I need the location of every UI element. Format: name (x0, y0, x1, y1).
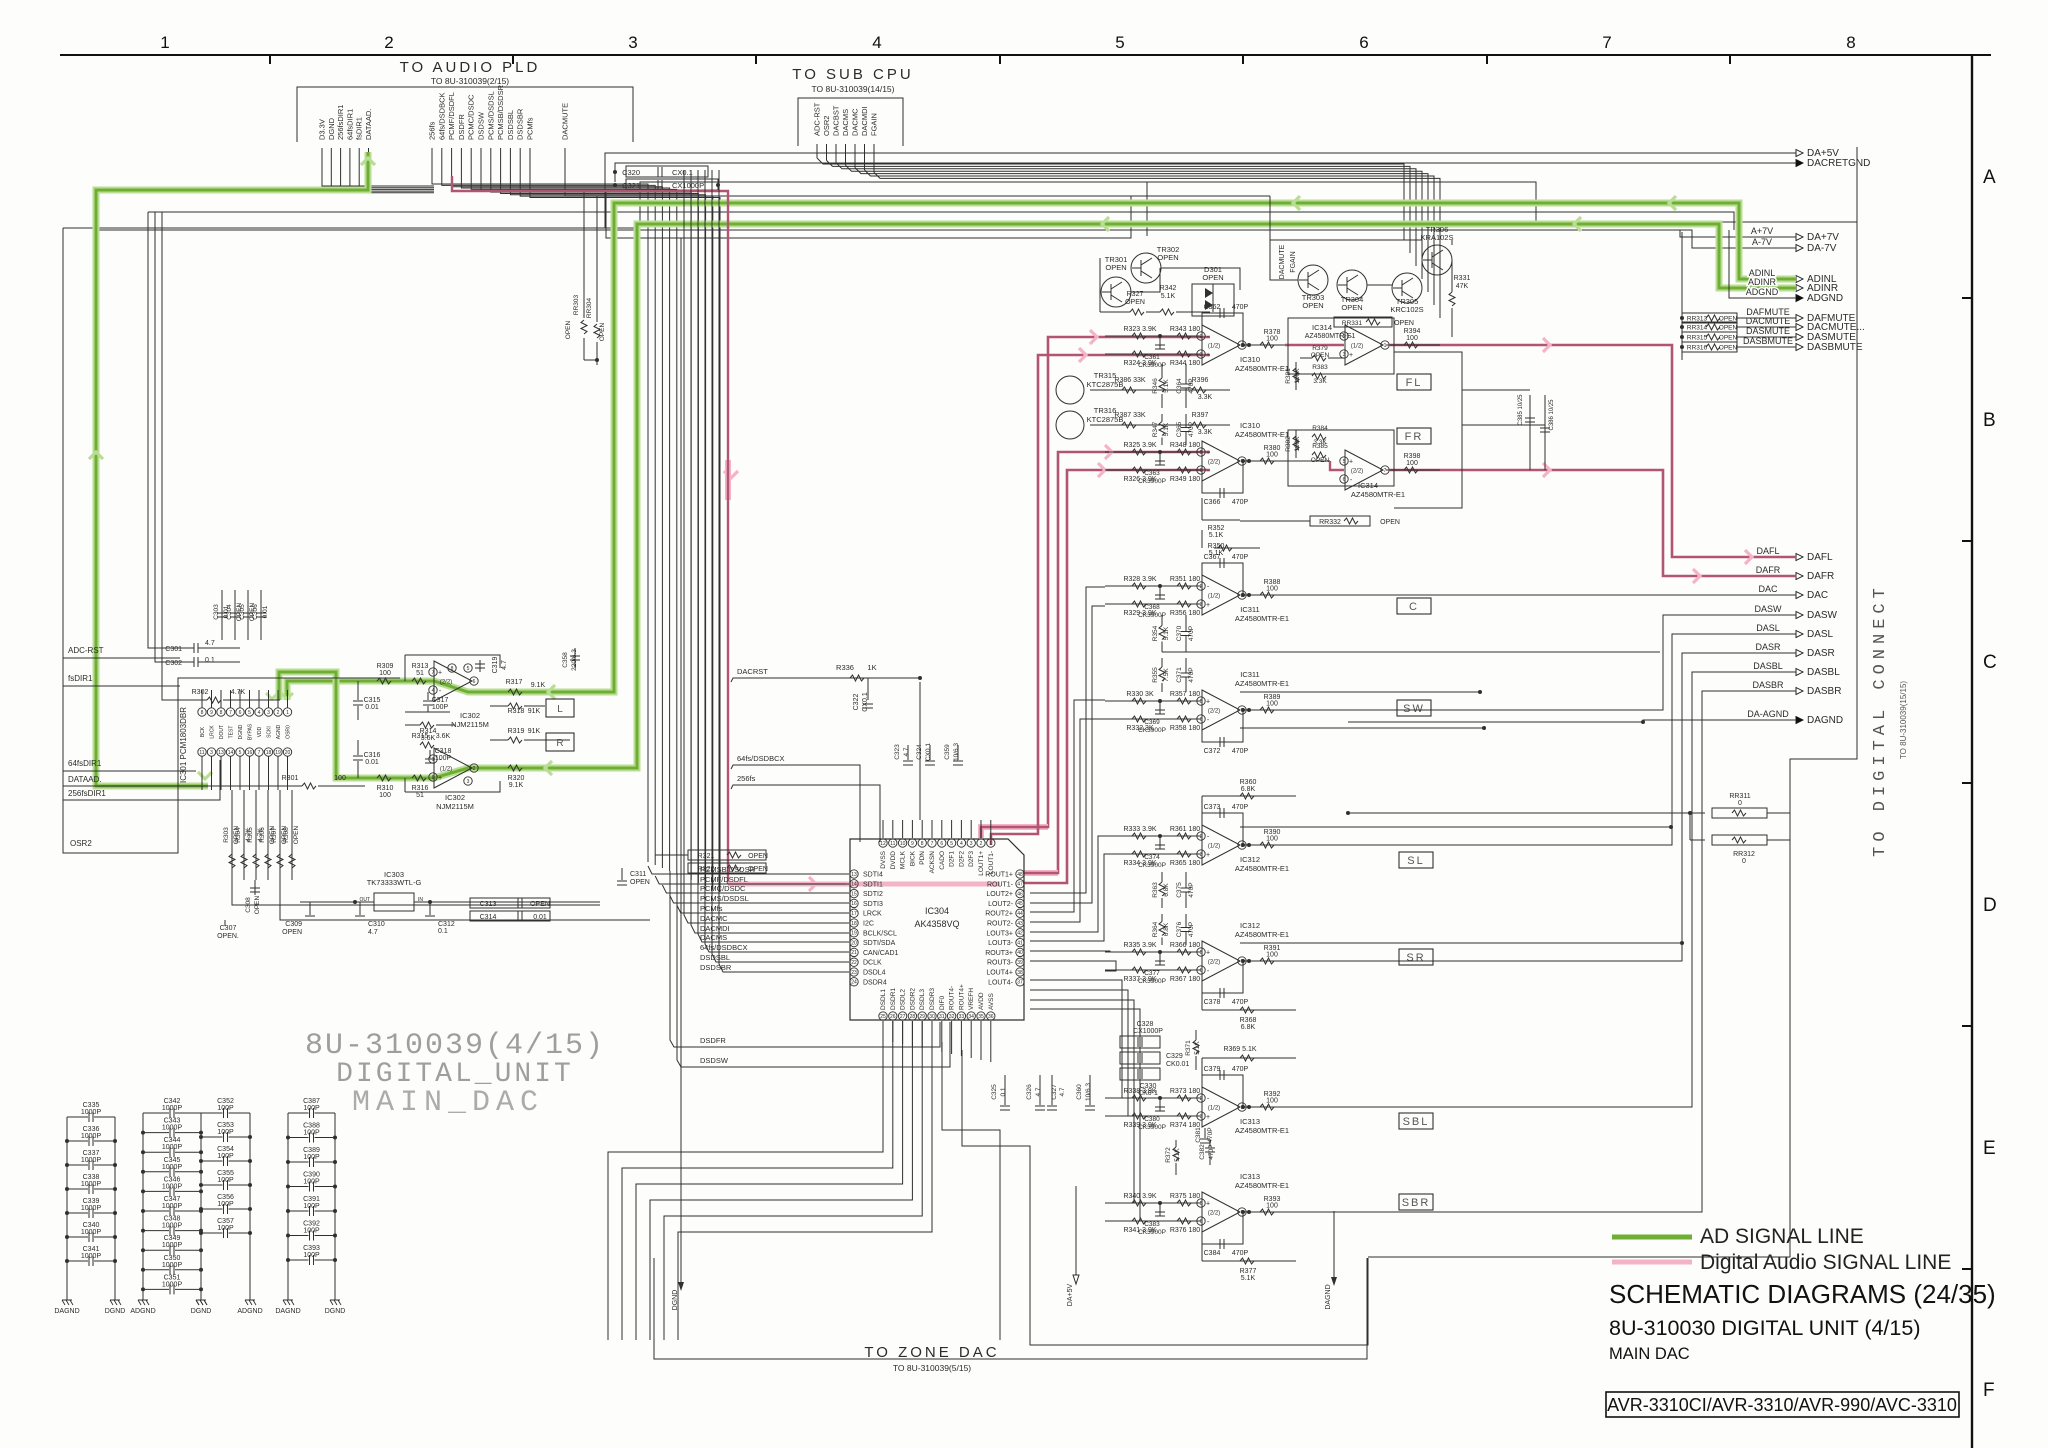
svg-text:OPEN: OPEN (282, 929, 302, 936)
svg-text:R369 5.1K: R369 5.1K (1223, 1046, 1256, 1053)
svg-text:R354: R354 (1152, 625, 1159, 641)
svg-text:R316: R316 (412, 785, 429, 792)
svg-text:FGAIN: FGAIN (870, 113, 879, 136)
svg-text:R386 33K: R386 33K (1114, 377, 1145, 384)
wire FL aux right (1394, 352, 1462, 508)
wire DACRST (731, 678, 920, 682)
op-amp IC310 FR (1105, 451, 1201, 453)
wire right box2 (1147, 182, 1857, 222)
svg-text:100: 100 (1266, 1203, 1278, 1210)
wire out bundle SBL+ (1030, 980, 1122, 1098)
left lower wires (232, 880, 600, 905)
svg-text:6.8K: 6.8K (1241, 786, 1256, 793)
svg-text:13: 13 (218, 750, 224, 756)
svg-text:DACMC: DACMC (851, 108, 860, 136)
exit arrow DACMUTE... (1796, 324, 1803, 331)
svg-text:KRA102S: KRA102S (1421, 233, 1454, 242)
svg-text:IC302: IC302 (460, 711, 480, 720)
svg-text:C327: C327 (1051, 1084, 1058, 1100)
svg-text:470P: 470P (1232, 1066, 1249, 1073)
svg-text:C385 10/25: C385 10/25 (1518, 394, 1524, 426)
svg-text:470P: 470P (1188, 667, 1195, 682)
svg-text:47: 47 (1017, 882, 1023, 888)
svg-text:100P: 100P (303, 1228, 320, 1235)
svg-text:42: 42 (1017, 931, 1023, 937)
svg-text:RR311: RR311 (1729, 793, 1750, 800)
wire box top A (63, 182, 1147, 236)
svg-text:44: 44 (1017, 911, 1023, 917)
svg-text:R320: R320 (508, 775, 525, 782)
svg-text:1000P: 1000P (81, 1253, 102, 1260)
svg-text:RR315: RR315 (1687, 335, 1708, 342)
pin PCMfs (0, 0, 1, 1)
IC302 fb box2 (405, 781, 500, 792)
svg-text:SL: SL (1407, 855, 1424, 867)
svg-text:C389: C389 (303, 1147, 320, 1154)
svg-text:DAGND: DAGND (54, 1308, 79, 1315)
DA arrow FL in1 (1090, 330, 1097, 344)
svg-text:1000P: 1000P (81, 1229, 102, 1236)
svg-text:SW: SW (1403, 703, 1425, 715)
svg-text:5.1K: 5.1K (1161, 293, 1176, 300)
exit arrow DA+7V (1796, 234, 1803, 241)
svg-text:9: 9 (911, 841, 914, 847)
wire 64fs/DSDBCX (731, 765, 860, 842)
svg-text:C308: C308 (245, 897, 252, 913)
wire DA+7V link (1680, 230, 1796, 237)
svg-text:C358: C358 (562, 652, 569, 668)
cap C325 (1004, 1075, 1006, 1105)
wire left col C301 feed (148, 212, 160, 648)
svg-text:DASR: DASR (1807, 648, 1835, 659)
pin fsDIR1 (0, 0, 1, 1)
svg-text:18: 18 (266, 750, 272, 756)
resistor R313 (412, 678, 426, 684)
exit arrow DAFL (1796, 554, 1803, 561)
svg-text:C359: C359 (944, 744, 951, 760)
svg-text:(2/2): (2/2) (1208, 709, 1220, 715)
svg-text:C328: C328 (1137, 1021, 1154, 1028)
svg-text:PCMC/DSDC: PCMC/DSDC (467, 94, 476, 140)
svg-text:R374 180: R374 180 (1170, 1122, 1200, 1129)
svg-text:R330 3K: R330 3K (1126, 691, 1154, 698)
svg-text:R304: R304 (235, 827, 242, 843)
svg-text:9.1K: 9.1K (531, 682, 546, 689)
wire DASL out (1285, 634, 1796, 845)
left signal fsDIR1 (63, 685, 180, 687)
svg-text:OPEN: OPEN (1125, 299, 1145, 306)
wire bundle audio pld B to DAC (432, 176, 648, 862)
wire 256fs (731, 785, 880, 842)
svg-text:8: 8 (220, 710, 223, 716)
ruler tick (755, 55, 757, 64)
IC304 left pins (850, 870, 858, 878)
svg-text:4: 4 (960, 841, 963, 847)
svg-text:FGAIN: FGAIN (1290, 251, 1297, 272)
svg-text:4: 4 (432, 688, 435, 694)
resistor R317 (508, 689, 522, 695)
exit arrow DACRETGND (1796, 160, 1803, 167)
svg-text:7: 7 (1602, 33, 1611, 52)
svg-text:DSDSBL: DSDSBL (700, 953, 730, 962)
svg-text:5.1K: 5.1K (1163, 626, 1170, 640)
svg-text:C323: C323 (894, 744, 901, 760)
svg-text:VDD: VDD (257, 726, 263, 737)
exit arrow DAFR (1796, 573, 1803, 580)
svg-text:470P: 470P (1232, 804, 1249, 811)
svg-text:PCMfs: PCMfs (526, 117, 535, 140)
svg-text:C369: C369 (1144, 719, 1160, 726)
svg-text:OPEN: OPEN (1719, 345, 1738, 352)
svg-text:DSDFR: DSDFR (457, 114, 466, 140)
svg-text:15: 15 (851, 891, 857, 897)
svg-text:DASL: DASL (1756, 623, 1780, 633)
svg-text:C301: C301 (165, 646, 182, 653)
svg-text:fsDIR1: fsDIR1 (355, 117, 364, 140)
cap C324 (929, 745, 931, 760)
svg-text:PDN: PDN (919, 851, 926, 865)
svg-text:C377: C377 (1144, 970, 1160, 977)
svg-text:0: 0 (1742, 858, 1746, 865)
svg-text:C354: C354 (217, 1146, 234, 1153)
pin DSDFR (0, 0, 1, 1)
cap C327 (1051, 1075, 1053, 1105)
svg-text:3.6K: 3.6K (436, 733, 451, 740)
svg-text:C365: C365 (1176, 421, 1183, 437)
svg-text:MAIN DAC: MAIN DAC (1609, 1345, 1690, 1363)
svg-text:100: 100 (379, 792, 391, 799)
svg-text:OPEN: OPEN (1202, 273, 1223, 282)
AD signal line L channel (287, 203, 1796, 700)
cap C330 (1120, 1068, 1160, 1080)
border tick (1962, 297, 1972, 299)
wire out bundle SW- (1030, 719, 1105, 922)
svg-text:OPEN: OPEN (1719, 335, 1738, 342)
svg-text:FL: FL (1406, 377, 1423, 389)
svg-text:41: 41 (1017, 940, 1023, 946)
svg-text:IC304: IC304 (925, 906, 949, 916)
svg-text:DAFL: DAFL (1756, 546, 1779, 556)
svg-text:45: 45 (1017, 901, 1023, 907)
svg-text:1000P: 1000P (81, 1133, 102, 1140)
svg-text:C315: C315 (364, 697, 381, 704)
left signal DATAAD (63, 785, 208, 787)
wire out bundle SR+ (1030, 951, 1110, 952)
top ruler line (60, 54, 1991, 56)
svg-text:AZ4580MTR-E1: AZ4580MTR-E1 (1235, 930, 1289, 939)
resistor R382 (1295, 430, 1297, 458)
svg-text:R331: R331 (1454, 275, 1471, 282)
pin 64fsDIR1 (0, 0, 1, 1)
svg-text:23: 23 (851, 970, 857, 976)
DA arrow DAFL exit (1745, 550, 1752, 564)
svg-text:0.01: 0.01 (533, 914, 547, 921)
svg-text:1000P: 1000P (81, 1109, 102, 1116)
svg-text:C349: C349 (164, 1235, 181, 1242)
pin D3.3V (0, 0, 1, 1)
op-amp IC302 R (434, 748, 472, 788)
exit arrow DAFMUTE (1796, 315, 1803, 322)
wire OSR2 box (63, 228, 178, 853)
resistor R320 (508, 765, 522, 771)
svg-text:DSDFR: DSDFR (700, 1036, 726, 1045)
ruler tick (1242, 55, 1244, 64)
svg-text:DSDSBR: DSDSBR (516, 108, 525, 140)
wire rr311 link (1640, 812, 1705, 814)
border tick (1962, 782, 1972, 784)
exit arrow DA+5V (1796, 150, 1803, 157)
svg-text:22: 22 (851, 960, 857, 966)
svg-text:470P: 470P (1232, 1250, 1249, 1257)
svg-text:R335 3.9K: R335 3.9K (1123, 942, 1156, 949)
svg-text:DAFR: DAFR (1756, 565, 1781, 575)
svg-text:29: 29 (919, 1014, 925, 1020)
cap C360 (1089, 1075, 1091, 1105)
svg-text:R352: R352 (1208, 525, 1225, 532)
svg-text:64fs/DSDBCX: 64fs/DSDBCX (700, 943, 748, 952)
svg-text:R323 3.9K: R323 3.9K (1123, 326, 1156, 333)
svg-text:3: 3 (1343, 352, 1346, 358)
svg-text:R357 180: R357 180 (1170, 691, 1200, 698)
transistor TR316 (1056, 411, 1084, 439)
svg-text:DA+7V: DA+7V (1807, 232, 1839, 243)
DA line DAFL (1390, 345, 1796, 557)
svg-text:C351: C351 (164, 1274, 181, 1281)
pin 64fs/DSDBCK (0, 0, 1, 1)
svg-text:AZ4580MTR-E1: AZ4580MTR-E1 (1351, 490, 1405, 499)
svg-text:LRCK: LRCK (210, 725, 216, 739)
svg-text:5.1K: 5.1K (1163, 379, 1170, 393)
IC304 bottom right wires (942, 1042, 1000, 1340)
svg-text:C318: C318 (435, 748, 452, 755)
svg-text:A+7V: A+7V (1751, 226, 1773, 236)
svg-text:CK3900P: CK3900P (1138, 478, 1166, 485)
svg-text:+: + (1206, 352, 1210, 359)
svg-text:4: 4 (258, 710, 261, 716)
svg-text:OPEN: OPEN (1719, 325, 1738, 332)
svg-text:DACMUTE: DACMUTE (561, 103, 570, 140)
AD arrow left y224 a (1102, 217, 1109, 231)
svg-text:12: 12 (880, 841, 886, 847)
AD arrow left y224 b (1574, 217, 1581, 231)
svg-text:R364: R364 (1152, 921, 1159, 937)
svg-text:OPEN: OPEN (1394, 320, 1414, 327)
svg-text:RR316: RR316 (1687, 345, 1708, 352)
resistor R372 (1173, 1147, 1179, 1161)
DA line LOUT1+ to FL (981, 337, 1150, 838)
svg-text:2: 2 (277, 710, 280, 716)
DA line PCMF highlight arrow (724, 471, 738, 478)
svg-text:1000P: 1000P (81, 1157, 102, 1164)
svg-text:DSDR3: DSDR3 (929, 988, 936, 1010)
pin 256fsDIR1 (0, 0, 1, 1)
svg-text:R367 180: R367 180 (1170, 976, 1200, 983)
power arrow DGND (680, 1186, 682, 1282)
svg-text:ROUT3-: ROUT3- (987, 960, 1014, 967)
svg-text:0.01: 0.01 (365, 759, 379, 766)
svg-text:LOUT2-: LOUT2- (988, 901, 1014, 908)
svg-text:C312: C312 (438, 921, 455, 928)
svg-text:ROUT1-: ROUT1- (987, 881, 1014, 888)
wire reg row (300, 901, 374, 903)
svg-text:6: 6 (940, 841, 943, 847)
cap C315 (357, 681, 359, 700)
svg-text:AZ4580MTR-E1: AZ4580MTR-E1 (1305, 333, 1356, 340)
IC304 input rows pcm (648, 866, 849, 874)
svg-text:R344 180: R344 180 (1170, 360, 1200, 367)
svg-text:OPEN: OPEN (599, 322, 606, 341)
svg-text:DSDSBL: DSDSBL (506, 110, 515, 140)
svg-text:PCMSB/DSDSR: PCMSB/DSDSR (496, 84, 505, 140)
resistor RR304 (596, 196, 598, 322)
svg-text:470P: 470P (1232, 499, 1249, 506)
svg-text:28: 28 (910, 1014, 916, 1020)
svg-text:R349 180: R349 180 (1170, 476, 1200, 483)
caps C303-C306 (221, 590, 223, 640)
channel box SBR (1399, 1194, 1433, 1210)
AD arrow left y203 b (1669, 196, 1676, 210)
svg-text:1: 1 (989, 841, 992, 847)
svg-text:220/6.3: 220/6.3 (571, 649, 578, 671)
pin DGND (0, 0, 1, 1)
svg-text:3: 3 (467, 779, 470, 785)
svg-text:35: 35 (978, 1014, 984, 1020)
svg-text:5: 5 (239, 750, 242, 756)
svg-text:SDTI4: SDTI4 (863, 872, 883, 879)
svg-text:100: 100 (379, 670, 391, 677)
resistor RR311 (1712, 808, 1767, 818)
svg-text:38: 38 (1017, 970, 1023, 976)
IC304 bottom pin staircase (608, 1021, 883, 1340)
svg-text:C380: C380 (1144, 1116, 1160, 1123)
exit arrow DASL (1796, 631, 1803, 638)
svg-text:VREFH: VREFH (968, 988, 975, 1010)
svg-text:OPEN: OPEN (1719, 316, 1738, 323)
DA line SDTI1 core (728, 883, 846, 885)
svg-text:R379: R379 (1312, 345, 1328, 352)
exit arrow ADINL (1796, 276, 1803, 283)
svg-text:37: 37 (1017, 980, 1023, 986)
svg-text:51: 51 (416, 670, 424, 677)
svg-text:4.7: 4.7 (1059, 1087, 1066, 1096)
legend AD swatch (1612, 1235, 1692, 1240)
svg-text:9: 9 (210, 710, 213, 716)
svg-text:R336: R336 (836, 663, 854, 672)
interstage C381 (1204, 1128, 1206, 1138)
svg-text:5: 5 (1200, 1201, 1203, 1207)
IC301 outline (63, 700, 178, 853)
svg-text:OPEN: OPEN (1311, 457, 1330, 464)
svg-text:C345: C345 (164, 1157, 181, 1164)
svg-text:91K: 91K (528, 728, 541, 735)
ruler tick (1729, 55, 1731, 64)
svg-text:OPEN: OPEN (630, 879, 650, 886)
op-amp IC313 SBR stage (1105, 1202, 1201, 1204)
resistor R322 (688, 863, 766, 873)
svg-text:DASW: DASW (1755, 604, 1783, 614)
svg-text:Digital Audio SIGNAL LINE: Digital Audio SIGNAL LINE (1700, 1251, 1951, 1274)
IC304 bottom pins (879, 1012, 887, 1020)
svg-text:R342: R342 (1160, 285, 1177, 292)
svg-text:5.1K: 5.1K (1241, 1275, 1256, 1282)
svg-text:ADGND: ADGND (130, 1308, 155, 1315)
svg-text:R309: R309 (377, 663, 394, 670)
svg-text:C305: C305 (239, 604, 246, 620)
svg-text:RR332: RR332 (1319, 519, 1341, 526)
svg-text:C340: C340 (83, 1222, 100, 1229)
svg-text:C375: C375 (1176, 882, 1183, 898)
svg-text:64fs/DSDBCX: 64fs/DSDBCX (737, 754, 785, 763)
svg-text:CX1000P: CX1000P (1133, 1028, 1163, 1035)
svg-text:R387 33K: R387 33K (1114, 412, 1145, 419)
svg-text:R376 180: R376 180 (1170, 1227, 1200, 1234)
svg-text:R346: R346 (1152, 378, 1159, 394)
svg-text:6: 6 (1359, 33, 1368, 52)
svg-text:CK3900P: CK3900P (1138, 362, 1166, 369)
svg-text:SCKI: SCKI (267, 726, 273, 738)
svg-text:DASW: DASW (1807, 610, 1838, 621)
svg-text:DSDR2: DSDR2 (909, 988, 916, 1010)
transistor TR305 (1392, 273, 1422, 303)
svg-text:+: + (1206, 1201, 1210, 1208)
svg-text:256fs: 256fs (428, 121, 437, 140)
svg-text:ADINR: ADINR (1748, 277, 1777, 287)
svg-text:DASBMUTE: DASBMUTE (1807, 342, 1863, 353)
resistor R385 (1312, 452, 1326, 458)
cap C322 (863, 703, 873, 705)
wire mid long 943 (1240, 942, 1682, 944)
svg-text:ROUT4-: ROUT4- (949, 986, 956, 1010)
svg-text:C386 10/25: C386 10/25 (1549, 399, 1555, 431)
svg-text:C379: C379 (1204, 1066, 1221, 1073)
wire vert x681 (680, 238, 682, 1186)
IC304 dsdfr row (670, 871, 940, 1047)
svg-text:5.1K: 5.1K (1163, 422, 1170, 436)
svg-text:R368: R368 (1240, 1017, 1257, 1024)
resistor R350 (1201, 530, 1203, 548)
svg-text:AZ4580MTR-E1: AZ4580MTR-E1 (1235, 679, 1289, 688)
svg-text:DSDR1: DSDR1 (890, 988, 897, 1010)
svg-text:0.01: 0.01 (262, 605, 269, 618)
resistor R394 (1386, 344, 1440, 346)
svg-text:33: 33 (959, 1014, 965, 1020)
svg-text:R397: R397 (1192, 412, 1209, 419)
svg-text:C393: C393 (303, 1245, 320, 1252)
svg-text:LOUT4-: LOUT4- (988, 979, 1014, 986)
svg-text:TO DIGITAL CONNECT: TO DIGITAL CONNECT (1871, 583, 1890, 857)
DA line SDTI1 highlight (728, 882, 1000, 887)
svg-text:R343 180: R343 180 (1170, 326, 1200, 333)
left signal ADC-RST (63, 657, 180, 659)
cap C358 (574, 648, 576, 668)
exit arrow DASMUTE (1796, 334, 1803, 341)
svg-text:R351 180: R351 180 (1170, 576, 1200, 583)
svg-text:AD SIGNAL LINE: AD SIGNAL LINE (1700, 1225, 1864, 1248)
svg-text:100: 100 (1406, 335, 1418, 342)
svg-text:24: 24 (851, 980, 857, 986)
svg-text:C353: C353 (217, 1122, 234, 1129)
transistor TR306 (1422, 245, 1452, 275)
svg-text:100P: 100P (217, 1201, 234, 1208)
svg-text:DACBST: DACBST (832, 105, 841, 136)
svg-text:RR313: RR313 (1687, 316, 1708, 323)
channel box L (546, 699, 574, 717)
svg-text:DA-AGND: DA-AGND (1747, 709, 1789, 719)
wire trans row1 (1099, 258, 1101, 312)
svg-text:(2/2): (2/2) (1208, 1211, 1220, 1217)
svg-text:+: + (1349, 352, 1353, 359)
svg-text:64fsDIR1: 64fsDIR1 (68, 759, 102, 768)
